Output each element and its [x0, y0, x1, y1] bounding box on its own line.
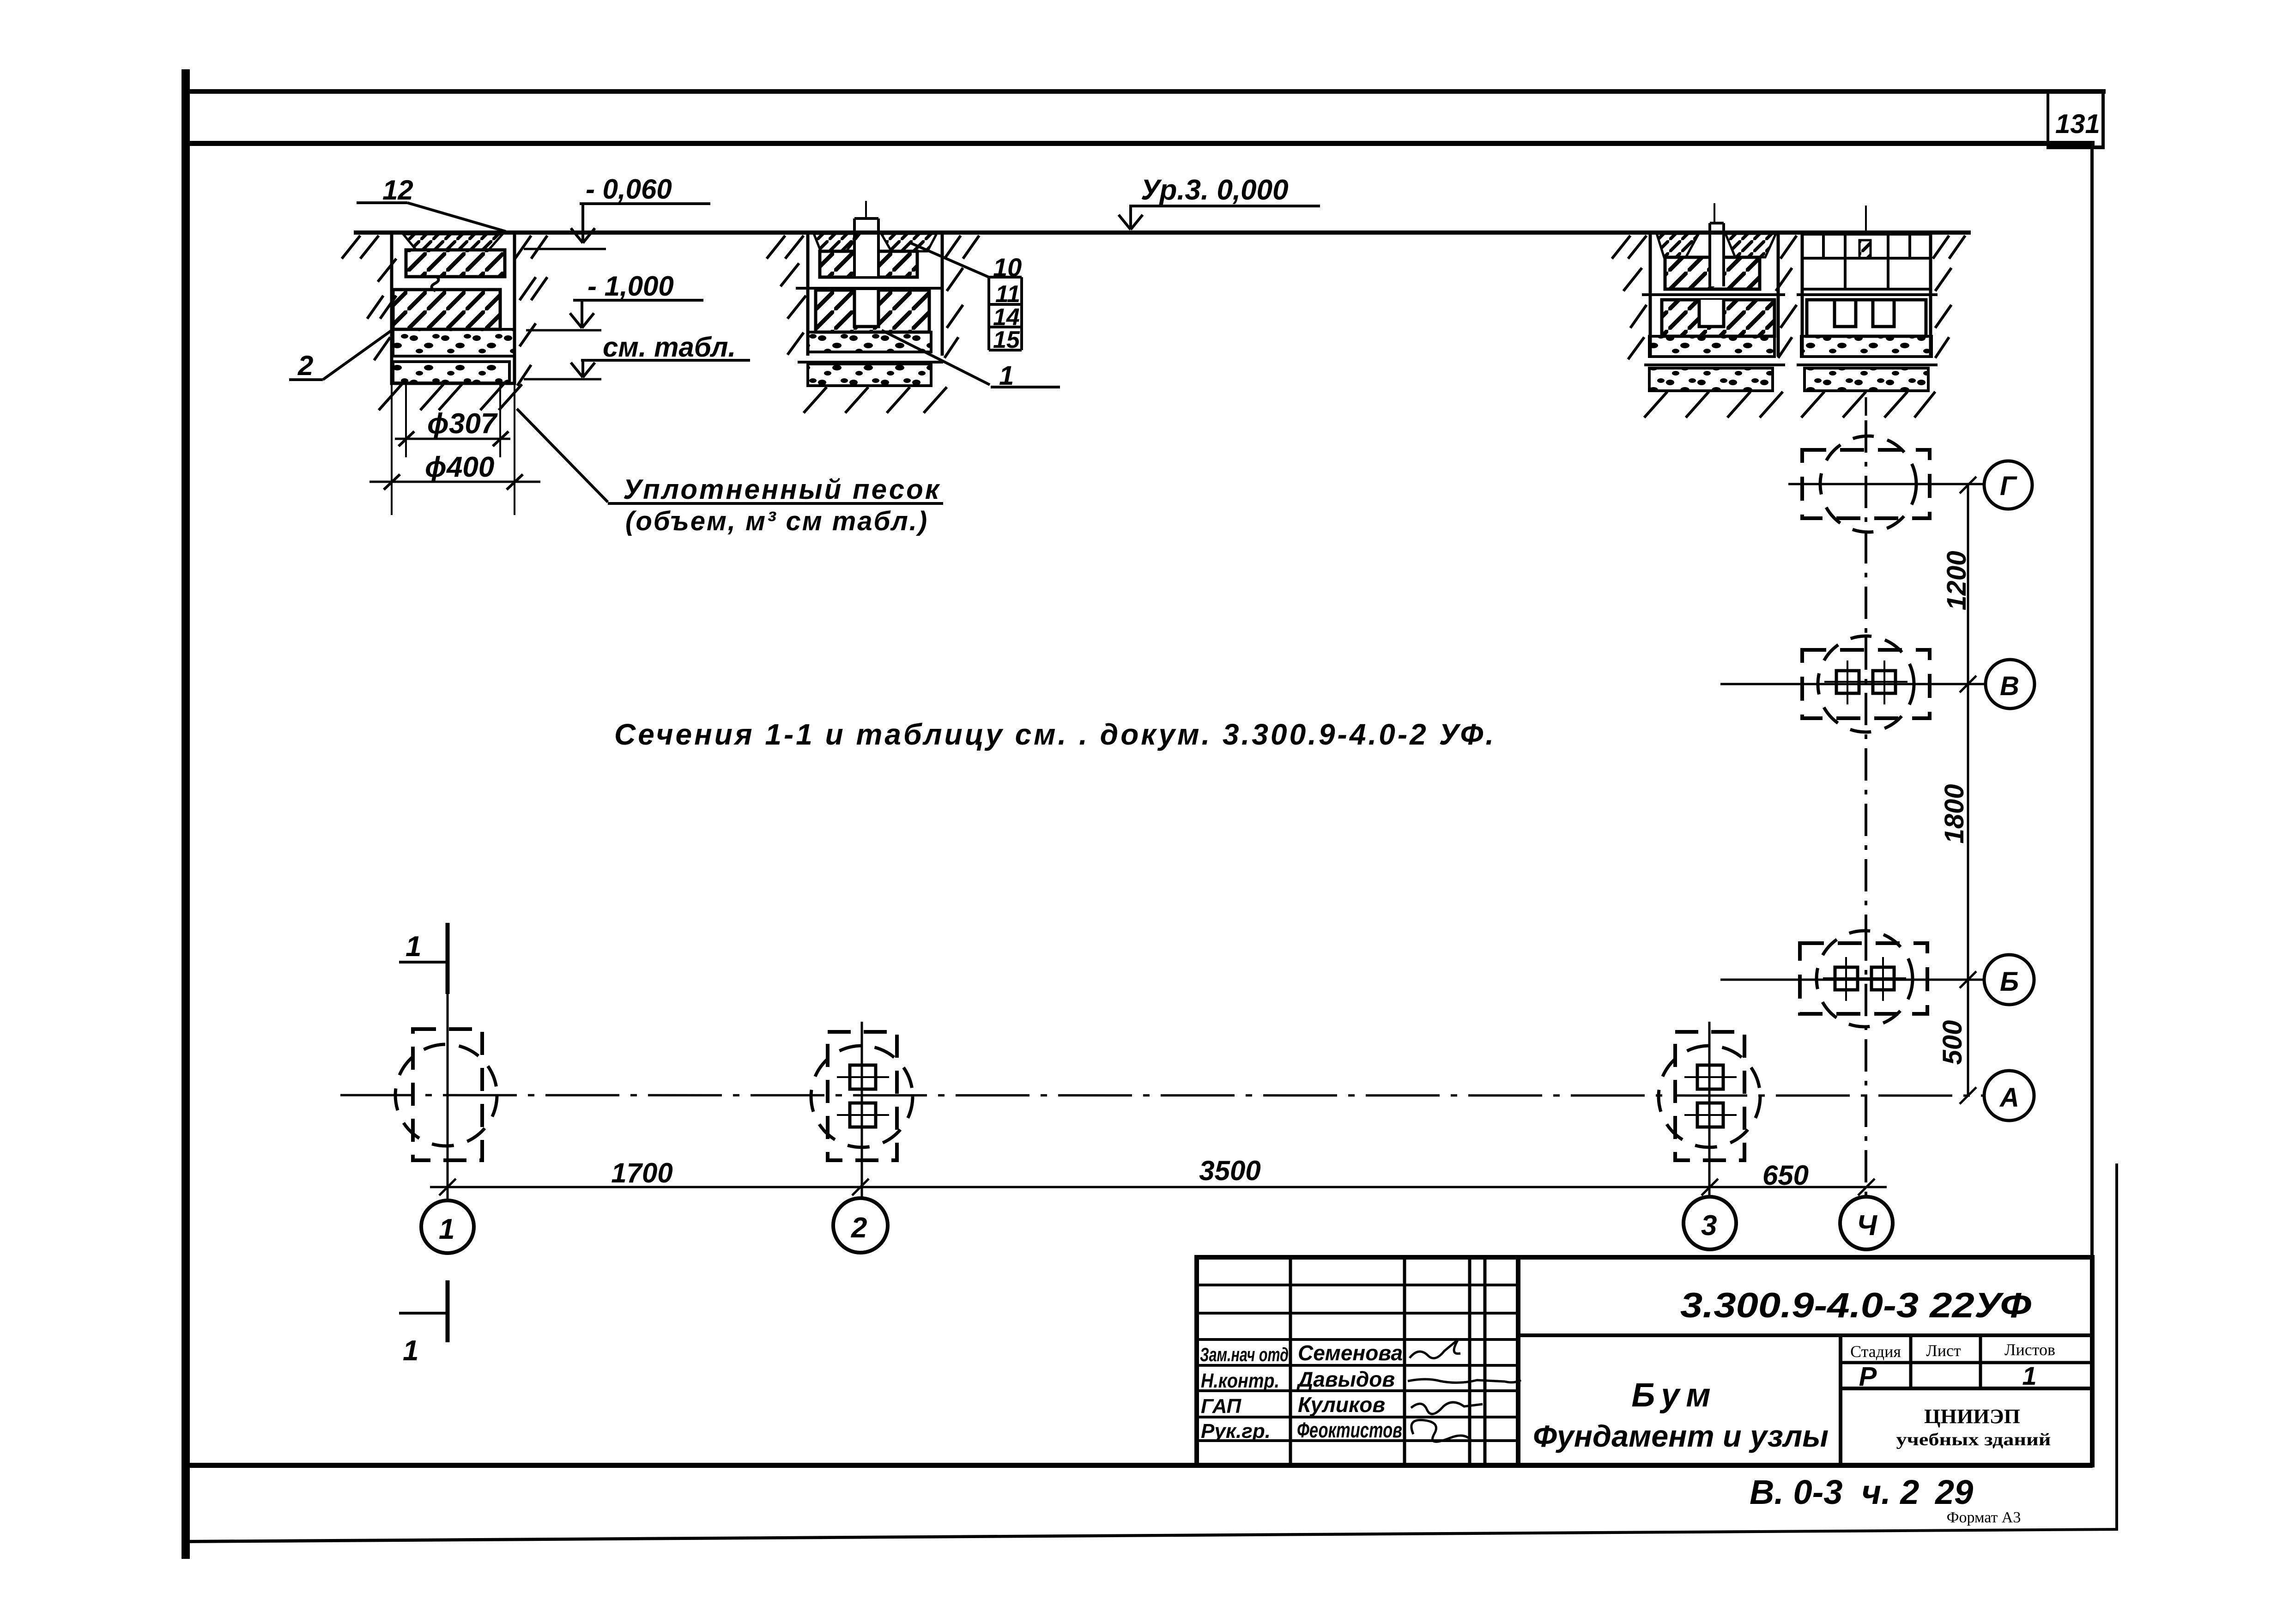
svg-text:ЦНИИЭП: ЦНИИЭП: [1924, 1405, 2020, 1428]
svg-text:1: 1: [999, 361, 1014, 391]
svg-text:1: 1: [406, 931, 421, 963]
svg-text:500: 500: [1938, 1020, 1968, 1065]
svg-text:ч. 2: ч. 2: [1861, 1473, 1919, 1511]
svg-text:1: 1: [2022, 1361, 2036, 1390]
svg-text:3500: 3500: [1199, 1155, 1260, 1186]
svg-text:Лист: Лист: [1926, 1341, 1961, 1360]
svg-text:Семенова: Семенова: [1298, 1341, 1403, 1365]
svg-text:Формат А3: Формат А3: [1947, 1509, 2021, 1526]
svg-text:Р: Р: [1859, 1362, 1877, 1392]
svg-text:1: 1: [403, 1335, 418, 1367]
svg-text:см. табл.: см. табл.: [603, 332, 736, 363]
svg-text:Ч: Ч: [1857, 1210, 1877, 1242]
svg-text:3.300.9-4.0-3 22УФ: 3.300.9-4.0-3 22УФ: [1680, 1286, 2032, 1325]
svg-text:Сечения 1-1 и таблицу см. .: Сечения 1-1 и таблицу см. . докум. 3.300…: [614, 718, 1496, 751]
svg-text:(объем, м³ см табл.): (объем, м³ см табл.): [625, 506, 928, 536]
svg-text:Стадия: Стадия: [1850, 1342, 1901, 1361]
svg-text:12: 12: [382, 175, 413, 206]
svg-text:В. 0-3: В. 0-3: [1750, 1473, 1843, 1511]
svg-text:1800: 1800: [1939, 784, 1969, 843]
svg-text:3: 3: [1701, 1210, 1717, 1242]
svg-text:В: В: [2000, 671, 2019, 701]
svg-text:- 1,000: - 1,000: [587, 271, 674, 302]
svg-text:Уплотненный песок: Уплотненный песок: [623, 474, 941, 505]
svg-text:Давыдов: Давыдов: [1296, 1367, 1395, 1391]
svg-text:Г: Г: [2000, 471, 2017, 501]
svg-text:ϕ400: ϕ400: [425, 451, 494, 483]
svg-text:2: 2: [851, 1212, 867, 1244]
svg-text:А: А: [1999, 1083, 2019, 1113]
svg-text:Куликов: Куликов: [1298, 1393, 1385, 1417]
svg-text:Н.контр.: Н.контр.: [1201, 1369, 1279, 1392]
svg-text:650: 650: [1762, 1160, 1809, 1191]
svg-text:Листов: Листов: [2004, 1340, 2055, 1359]
svg-text:Б: Б: [2000, 967, 2019, 997]
svg-text:2: 2: [297, 350, 313, 381]
svg-text:Феоктистов: Феоктистов: [1297, 1418, 1402, 1442]
svg-text:Зам.нач отд: Зам.нач отд: [1200, 1344, 1289, 1365]
svg-text:ГАП: ГАП: [1201, 1395, 1241, 1418]
svg-text:- 0,060: - 0,060: [586, 174, 672, 205]
svg-text:Ур.3. 0,000: Ур.3. 0,000: [1141, 174, 1289, 206]
svg-text:29: 29: [1934, 1473, 1973, 1511]
svg-text:131: 131: [2055, 109, 2100, 139]
svg-text:Фундамент и узлы: Фундамент и узлы: [1533, 1419, 1829, 1453]
svg-text:1: 1: [439, 1213, 454, 1245]
svg-text:15: 15: [993, 327, 1020, 353]
svg-text:ϕ307: ϕ307: [427, 408, 498, 440]
svg-text:Бум: Бум: [1631, 1377, 1717, 1414]
svg-text:10: 10: [993, 253, 1022, 282]
svg-text:Рук.гр.: Рук.гр.: [1201, 1420, 1271, 1442]
svg-text:1700: 1700: [611, 1157, 672, 1188]
svg-text:учебных зданий: учебных зданий: [1896, 1430, 2051, 1449]
svg-text:1200: 1200: [1942, 551, 1972, 610]
